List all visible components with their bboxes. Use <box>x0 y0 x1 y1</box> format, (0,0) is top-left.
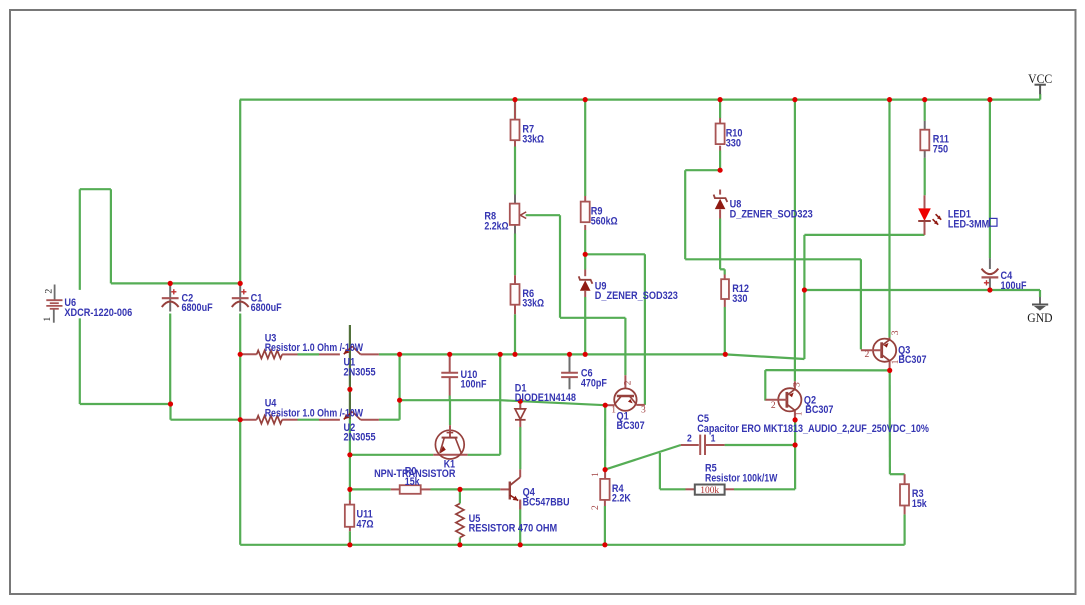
svg-text:2.2K: 2.2K <box>612 493 632 505</box>
svg-text:1: 1 <box>611 404 616 415</box>
svg-text:RESISTOR 470 OHM: RESISTOR 470 OHM <box>469 523 558 535</box>
svg-text:2: 2 <box>687 433 692 444</box>
svg-text:6800uF: 6800uF <box>182 302 213 314</box>
svg-text:Resistor 1.0 Ohm /-10W: Resistor 1.0 Ohm /-10W <box>265 342 364 354</box>
svg-text:Resistor 100k/1W: Resistor 100k/1W <box>705 472 778 484</box>
svg-text:Capacitor ERO MKT1813_AUDIO_2,: Capacitor ERO MKT1813_AUDIO_2,2UF_250VDC… <box>697 423 929 435</box>
svg-text:1: 1 <box>890 359 901 364</box>
svg-text:33kΩ: 33kΩ <box>522 298 544 310</box>
svg-text:560kΩ: 560kΩ <box>591 215 618 227</box>
svg-text:2: 2 <box>865 349 870 360</box>
svg-text:15k: 15k <box>405 476 420 488</box>
svg-text:BC307: BC307 <box>805 404 833 416</box>
svg-text:D_ZENER_SOD323: D_ZENER_SOD323 <box>730 208 813 220</box>
svg-text:2N3055: 2N3055 <box>344 432 377 444</box>
svg-text:47Ω: 47Ω <box>357 518 374 530</box>
svg-text:1: 1 <box>42 317 53 322</box>
svg-text:1: 1 <box>794 411 805 416</box>
svg-text:330: 330 <box>726 137 741 149</box>
svg-text:2: 2 <box>44 289 55 294</box>
svg-text:470pF: 470pF <box>581 377 607 389</box>
svg-text:Resistor 1.0 Ohm /-10W: Resistor 1.0 Ohm /-10W <box>265 407 364 419</box>
svg-text:VCC: VCC <box>1028 72 1052 86</box>
svg-text:330: 330 <box>732 293 747 305</box>
svg-text:100nF: 100nF <box>461 379 487 391</box>
svg-text:BC307: BC307 <box>617 420 645 432</box>
svg-text:3: 3 <box>641 404 646 415</box>
svg-text:2: 2 <box>771 400 776 411</box>
svg-text:1: 1 <box>590 472 601 477</box>
svg-text:BC307: BC307 <box>898 354 926 366</box>
svg-text:XDCR-1220-006: XDCR-1220-006 <box>64 307 132 319</box>
svg-text:2N3055: 2N3055 <box>344 366 377 378</box>
svg-text:750: 750 <box>933 144 948 156</box>
svg-text:DIODE1N4148: DIODE1N4148 <box>515 392 576 404</box>
svg-text:3: 3 <box>791 382 802 387</box>
svg-text:100k: 100k <box>700 485 719 496</box>
svg-text:1: 1 <box>711 433 716 444</box>
svg-text:15k: 15k <box>912 498 927 510</box>
svg-text:3: 3 <box>890 330 901 335</box>
svg-text:2.2kΩ: 2.2kΩ <box>484 220 508 232</box>
svg-text:100uF: 100uF <box>1001 280 1027 292</box>
svg-text:2: 2 <box>590 505 601 510</box>
svg-text:GND: GND <box>1027 311 1052 325</box>
svg-text:6800uF: 6800uF <box>251 302 282 314</box>
svg-text:D_ZENER_SOD323: D_ZENER_SOD323 <box>595 290 678 302</box>
svg-text:LED-3MM: LED-3MM <box>948 218 989 230</box>
svg-text:33kΩ: 33kΩ <box>522 133 544 145</box>
svg-text:BC547BBU: BC547BBU <box>523 496 570 508</box>
svg-text:2: 2 <box>622 380 633 385</box>
